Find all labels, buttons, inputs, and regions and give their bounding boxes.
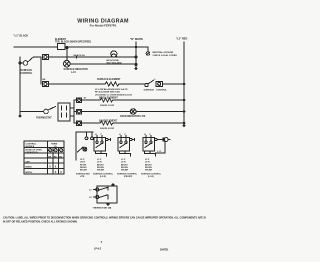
svg-text:RD-WH: RD-WH (97, 167, 104, 169)
svg-text:For Model FEF07P1: For Model FEF07P1 (90, 24, 117, 28)
svg-text:BK-BU: BK-BU (97, 164, 104, 166)
svg-text:OFF: OFF (26, 161, 31, 163)
feed connector (40, 57, 42, 84)
svg-text:RF-BK: RF-BK (80, 164, 87, 166)
svg-text:2600W, 22.2Ω: 2600W, 22.2Ω (100, 128, 114, 130)
ground drop wire (147, 47, 149, 52)
switch detail D (141, 134, 162, 178)
svg-text:THERMOSTAT (M): THERMOSTAT (M) (93, 207, 112, 210)
svg-text:L1: L1 (49, 150, 51, 152)
svg-text:"L2" RED: "L2" RED (176, 38, 187, 41)
svg-text:RD-WH: RD-WH (121, 167, 128, 169)
svg-text:CONTROL: CONTROL (156, 89, 167, 91)
svg-text:(L1-R): (L1-R) (148, 176, 154, 178)
svg-text:SURFACE IND: SURFACE IND (76, 172, 90, 175)
svg-text:L1-P: L1-P (145, 159, 150, 161)
wire to L2 (119, 83, 184, 85)
chart table (24, 141, 64, 174)
thermostat detail (89, 184, 117, 210)
svg-text:(FRONT): (FRONT) (124, 176, 133, 178)
svg-text:CAUTION: LABEL ALL WIRES PRIOR: CAUTION: LABEL ALL WIRES PRIOR TO DISCON… (3, 216, 206, 219)
svg-text:(LF-R): (LF-R) (100, 176, 106, 178)
svg-text:1: 1 (61, 150, 62, 152)
thermostat box (58, 103, 70, 121)
bake wire (82, 122, 101, 124)
svg-text:SURFACE INDICATOR: SURFACE INDICATOR (64, 68, 89, 71)
wire lamp row (48, 56, 136, 58)
oven indicator lamp (130, 109, 136, 115)
svg-text:3047B1: 3047B1 (160, 249, 169, 252)
resistor bake element (100, 121, 113, 125)
svg-text:WH-BR: WH-BR (121, 170, 128, 172)
bake branch terminal (77, 121, 82, 126)
svg-text:WH-BR: WH-BR (145, 170, 152, 172)
terminal T2 (43, 82, 49, 87)
broil wire (82, 99, 101, 101)
svg-text:BK-BU: BK-BU (121, 164, 128, 166)
svg-text:BK-WH: BK-WH (80, 170, 87, 172)
indicator lamp L2 (64, 60, 71, 67)
svg-text:3000W, 19.2Ω: 3000W, 19.2Ω (100, 105, 114, 107)
svg-text:BAKE ELEMENT: BAKE ELEMENT (99, 119, 118, 122)
surface control contact (145, 83, 148, 86)
ground G1 (146, 52, 150, 56)
svg-text:RR-BU: RR-BU (80, 167, 87, 169)
svg-text:LP-6-2: LP-6-2 (94, 249, 102, 251)
svg-text:OVEN INDICATOR LITE: OVEN INDICATOR LITE (120, 115, 146, 118)
thermostat switch (44, 109, 49, 114)
svg-text:IN OFF OR RELAXED POSITION. CH: IN OFF OR RELAXED POSITION. CHECK ALL RA… (3, 220, 78, 223)
svg-text:"L1" BLACK: "L1" BLACK (14, 35, 29, 38)
resistor broil element (100, 98, 113, 102)
wire N bus (135, 42, 137, 69)
svg-text:TER. BLOCK (WHEN SPECIFIED): TER. BLOCK (WHEN SPECIFIED) (55, 42, 91, 44)
surface indicator detail (76, 132, 93, 178)
terminal block TB1 (58, 44, 66, 50)
svg-text:"N" WHITE: "N" WHITE (130, 38, 143, 41)
svg-text:LR=1250W, Ca 1750W 250/208 2x4: LR=1250W, Ca 1750W 250/208 2x4.7Ω (95, 93, 132, 96)
svg-text:BK-BU: BK-BU (145, 164, 152, 166)
svg-text:SURFACE CONTROL: SURFACE CONTROL (141, 172, 162, 175)
terminal T1 (43, 55, 49, 60)
wire L1 bus (19, 57, 21, 116)
indicator feed drop (66, 47, 68, 49)
wire L1 feed row (14, 46, 148, 48)
lamp L1 (oven light) (111, 51, 117, 57)
surface control switch S1 (19, 62, 21, 64)
wire surface element row (48, 83, 105, 85)
wire L2 bus (183, 42, 185, 126)
svg-text:RD-WH: RD-WH (145, 167, 152, 169)
svg-text:LF-R: LF-R (97, 162, 102, 164)
svg-text:LITE: LITE (80, 176, 85, 178)
svg-text:L1-P: L1-P (121, 159, 126, 161)
svg-text:RF dbl=2100W 208V 8.4Ω: RF dbl=2100W 208V 8.4Ω (95, 90, 120, 93)
switch detail B (93, 134, 114, 178)
broil branch terminal (77, 98, 82, 103)
svg-text:LF-R: LF-R (145, 162, 150, 164)
svg-text:CONTROL: CONTROL (21, 72, 33, 75)
wire (113, 99, 184, 101)
svg-text:BROIL ELEMENT: BROIL ELEMENT (99, 97, 118, 99)
wire (113, 122, 184, 124)
svg-text:SURFACE ELEMENT: SURFACE ELEMENT (97, 78, 121, 81)
branch bus (70, 100, 77, 123)
svg-text:BAKE: BAKE (26, 165, 33, 168)
svg-text:LF & RR BK=2500W 208V 2x4.7Ω: LF & RR BK=2500W 208V 2x4.7Ω (95, 88, 128, 91)
oven indicator branch terminal (77, 109, 82, 114)
svg-text:LF-R: LF-R (121, 162, 126, 164)
svg-text:BK A/12 GA: BK A/12 GA (74, 54, 86, 57)
wire (82, 111, 185, 113)
junction N-row1 (135, 46, 137, 48)
svg-text:LF-P: LF-P (80, 159, 85, 161)
svg-text:1 2 3: 1 2 3 (157, 151, 161, 153)
svg-text:CHECK LOCAL CODES: CHECK LOCAL CODES (153, 54, 178, 57)
svg-text:THERMOSTAT: THERMOSTAT (36, 117, 52, 120)
svg-text:OPERATION: OPERATION (26, 151, 39, 154)
thermostat row wire (20, 111, 44, 113)
svg-text:NEUTRAL GROUND: NEUTRAL GROUND (153, 51, 174, 54)
svg-text:MODE B: MODE B (26, 146, 35, 148)
svg-text:SURFACE CONTROL: SURFACE CONTROL (117, 172, 138, 175)
svg-text:LR-R: LR-R (80, 162, 85, 164)
svg-text:WH-BR: WH-BR (97, 170, 104, 172)
resistor surface element (105, 82, 119, 86)
oven lamp branch (156, 138, 170, 153)
svg-text:L1-P: L1-P (97, 159, 102, 161)
switch detail C (117, 134, 138, 178)
svg-text:SURFACE CONTROL: SURFACE CONTROL (93, 172, 114, 175)
svg-text:SURFACE: SURFACE (144, 88, 155, 91)
svg-text:BROIL: BROIL (26, 172, 33, 174)
wire second neutral row (70, 63, 136, 65)
svg-text:L-10: L-10 (71, 72, 76, 74)
